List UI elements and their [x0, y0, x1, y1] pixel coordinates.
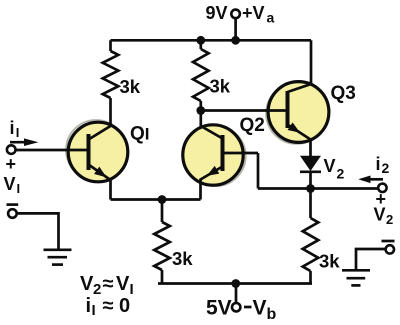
wire Q2 base to output node	[257, 153, 260, 189]
svg-text:9V: 9V	[206, 3, 228, 23]
wire bottom supply rail	[158, 282, 312, 285]
svg-text:2: 2	[93, 281, 101, 298]
svg-text:b: b	[267, 306, 277, 323]
wire common emitter bus	[111, 198, 201, 201]
wire top supply stub	[234, 18, 237, 40]
transistor Q3 symbol	[288, 40, 312, 156]
svg-text:V: V	[4, 174, 16, 194]
resistor R1 3k	[103, 40, 119, 126]
transistor Q2 symbol	[201, 111, 259, 200]
terminal bottom supply	[232, 303, 240, 311]
terminal input low	[8, 209, 17, 218]
transistor Q3 body	[266, 82, 329, 144]
minus sign bottom supply	[244, 306, 252, 309]
svg-text:I: I	[130, 281, 134, 298]
node rail supply junction	[231, 36, 240, 45]
arrow i2	[358, 176, 383, 184]
ground right	[342, 270, 370, 285]
terminal input	[7, 145, 16, 154]
node output junction	[306, 184, 315, 193]
wire output low to ground	[356, 249, 386, 270]
svg-text:3k: 3k	[120, 76, 141, 97]
wire Q2 collector node to Q3 base	[201, 109, 288, 112]
svg-text:+: +	[6, 154, 17, 174]
svg-text:I: I	[92, 302, 96, 319]
node Q2 collector junction	[196, 106, 205, 115]
svg-text:QI: QI	[130, 124, 150, 145]
node rail R2 junction	[196, 36, 205, 45]
wire bottom supply stub	[235, 284, 238, 304]
ground left	[44, 250, 72, 265]
node emitter junction	[158, 195, 167, 204]
transistor Q1 body	[66, 120, 128, 182]
transistor Q2 body	[183, 125, 246, 186]
svg-text:V: V	[80, 273, 94, 295]
svg-text:a: a	[267, 10, 275, 26]
svg-text:V: V	[324, 156, 336, 176]
svg-text:3k: 3k	[319, 251, 340, 272]
arrow i1	[10, 138, 38, 146]
svg-text:5V: 5V	[206, 297, 232, 320]
terminal output	[378, 184, 386, 192]
svg-text:i: i	[10, 118, 15, 138]
svg-text:V: V	[374, 205, 386, 225]
svg-text:3k: 3k	[172, 248, 193, 269]
svg-text:I: I	[16, 125, 20, 140]
svg-text:I: I	[17, 181, 21, 196]
svg-text:V: V	[116, 273, 130, 295]
resistor R2 3k	[193, 40, 209, 110]
terminal output low	[386, 245, 394, 253]
annotation V2 approx V1	[80, 273, 134, 298]
wire top supply rail	[111, 39, 312, 42]
svg-text:0: 0	[119, 295, 130, 317]
svg-text:i: i	[376, 154, 381, 174]
svg-text:+V: +V	[242, 3, 265, 23]
wire output node run	[258, 187, 378, 190]
svg-text:Q2: Q2	[240, 115, 265, 136]
wire input to Q1 base	[16, 149, 89, 152]
transistor Q1 symbol	[89, 126, 111, 200]
node bottom rail junction	[231, 279, 240, 288]
diode D1	[300, 156, 321, 189]
svg-text:2: 2	[382, 160, 390, 176]
annotation i1 approx 0	[86, 295, 131, 319]
svg-text:i: i	[86, 295, 92, 317]
terminal top supply	[231, 10, 240, 19]
svg-text:3k: 3k	[210, 76, 231, 97]
wire input low to ground	[17, 213, 59, 249]
svg-text:2: 2	[386, 212, 393, 227]
minus overbar input	[7, 203, 19, 206]
minus overbar output	[382, 240, 395, 243]
resistor R4 3k	[303, 189, 319, 284]
resistor R3 3k	[154, 200, 170, 284]
svg-text:2: 2	[337, 166, 345, 182]
svg-text:≈: ≈	[103, 295, 114, 317]
svg-text:V: V	[253, 297, 267, 320]
svg-text:Q3: Q3	[331, 83, 356, 104]
svg-text:≈: ≈	[103, 273, 114, 295]
